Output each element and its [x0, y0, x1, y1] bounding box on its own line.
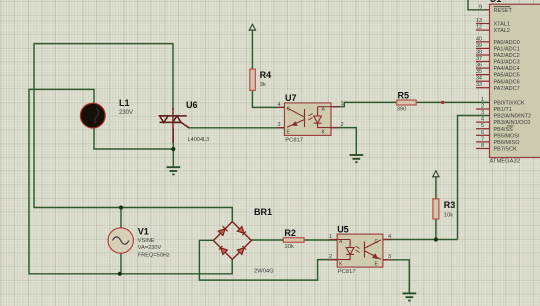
- resistor R4: [250, 69, 271, 90]
- svg-text:V1: V1: [138, 227, 149, 237]
- junction R5-MCU wire: [441, 101, 444, 104]
- pin stubs left: [476, 10, 490, 149]
- svg-text:7: 7: [481, 136, 484, 142]
- svg-text:390: 390: [397, 107, 407, 113]
- wire junction up to PB2: [458, 116, 490, 240]
- svg-text:R2: R2: [284, 228, 296, 238]
- svg-text:R3: R3: [444, 200, 456, 210]
- lamp L1: [80, 98, 133, 128]
- svg-text:2: 2: [341, 122, 344, 128]
- wire R5 to MCU pin1: [416, 101, 489, 103]
- svg-text:ATMEGA32: ATMEGA32: [490, 159, 521, 165]
- ground (U5): [403, 293, 417, 300]
- svg-text:U7: U7: [285, 93, 297, 103]
- resistor R2: [283, 228, 304, 250]
- MCU U1 ATMEGA32: [476, 0, 540, 165]
- ground (triac): [167, 167, 181, 174]
- svg-text:PB0/T0/XCK: PB0/T0/XCK: [494, 101, 526, 107]
- junction V1 top: [119, 205, 123, 209]
- svg-text:C: C: [375, 239, 379, 245]
- diode bottom-left: [219, 246, 228, 255]
- svg-text:12: 12: [476, 25, 482, 31]
- svg-text:PB1/T1: PB1/T1: [494, 107, 512, 113]
- optocoupler U7: [277, 93, 344, 144]
- svg-text:U1: U1: [490, 0, 502, 4]
- ground (U7): [350, 155, 364, 162]
- svg-text:39: 39: [476, 43, 482, 49]
- svg-text:3k: 3k: [260, 82, 266, 88]
- wire U5 pin4 row to R3 junction and right: [383, 239, 458, 241]
- svg-text:XTAL1: XTAL1: [494, 22, 510, 28]
- wire R3 top power: [435, 177, 437, 199]
- svg-text:1: 1: [341, 101, 344, 107]
- svg-text:PA0/ADC0: PA0/ADC0: [494, 40, 520, 46]
- svg-text:PA3/ADC3: PA3/ADC3: [494, 60, 520, 66]
- pin stubs: [277, 107, 340, 128]
- wire RESET from top: [468, 0, 490, 10]
- junction V1 bottom: [118, 272, 122, 276]
- svg-text:BR1: BR1: [254, 207, 272, 217]
- power arrow (R3): [433, 171, 439, 177]
- svg-text:PC817: PC817: [338, 269, 356, 275]
- led left: [337, 240, 359, 260]
- wire V1 bottom stub: [120, 253, 122, 274]
- svg-text:C: C: [287, 107, 291, 113]
- bridge BR1: [213, 207, 274, 275]
- svg-text:4: 4: [481, 117, 484, 123]
- wire lamp loop: [29, 89, 232, 273]
- svg-text:RESET: RESET: [494, 8, 513, 14]
- resistor R3: [433, 199, 455, 219]
- svg-text:33: 33: [476, 82, 482, 88]
- svg-text:35: 35: [476, 69, 482, 75]
- svg-text:R5: R5: [398, 91, 410, 101]
- wire R2 to U5 pin1: [304, 239, 337, 241]
- svg-text:38: 38: [476, 50, 482, 56]
- svg-text:PA6/ADC6: PA6/ADC6: [494, 79, 520, 85]
- svg-text:3: 3: [388, 254, 391, 260]
- svg-text:10k: 10k: [444, 213, 453, 219]
- diode top-left: [218, 226, 227, 235]
- svg-text:40: 40: [476, 36, 482, 42]
- svg-text:PB5/MOSI: PB5/MOSI: [494, 133, 520, 139]
- source V1: [108, 227, 170, 259]
- svg-text:PA5/ADC5: PA5/ADC5: [494, 73, 520, 79]
- svg-text:4: 4: [388, 234, 391, 240]
- SS overline: [507, 125, 514, 127]
- svg-text:PB7/SCK: PB7/SCK: [494, 147, 518, 153]
- triac U6: [160, 100, 210, 143]
- diode bottom-right: [237, 246, 246, 255]
- svg-text:37: 37: [476, 56, 482, 62]
- wire V1 top stub: [120, 208, 122, 229]
- svg-text:10k: 10k: [284, 244, 293, 250]
- svg-text:VA=230V: VA=230V: [138, 245, 162, 251]
- wire triac to ground: [172, 128, 174, 166]
- svg-text:3: 3: [481, 110, 484, 116]
- svg-text:L4004L3: L4004L3: [188, 137, 210, 143]
- svg-text:2W04G: 2W04G: [254, 269, 274, 275]
- svg-text:34: 34: [476, 76, 482, 82]
- power arrow (R4): [249, 24, 255, 30]
- svg-text:PB4/SS: PB4/SS: [494, 127, 514, 133]
- svg-text:4: 4: [277, 102, 280, 108]
- wire U5 pin3 to ground: [383, 260, 409, 293]
- junction lamp/triac node: [171, 147, 175, 151]
- svg-text:PB3/AIN1/OC0: PB3/AIN1/OC0: [494, 120, 531, 126]
- wire bridge right to R2: [251, 239, 283, 241]
- wire U7 pin2 to ground: [331, 128, 356, 155]
- svg-text:R4: R4: [260, 70, 272, 80]
- svg-text:9: 9: [479, 4, 482, 10]
- svg-text:XTAL2: XTAL2: [494, 28, 510, 34]
- svg-text:2: 2: [481, 104, 484, 110]
- svg-text:1: 1: [481, 97, 484, 103]
- svg-text:2: 2: [329, 254, 332, 260]
- svg-text:1: 1: [329, 234, 332, 240]
- wire R4 top power: [251, 30, 253, 69]
- wire top loop: [34, 44, 232, 222]
- transistor right: [364, 240, 381, 260]
- RESET overline: [494, 6, 511, 8]
- svg-text:8: 8: [481, 143, 484, 149]
- svg-text:PB2/AIN0/INT2: PB2/AIN0/INT2: [494, 114, 532, 120]
- svg-text:U6: U6: [186, 100, 198, 110]
- pin names: [494, 8, 532, 153]
- resistor R5: [397, 91, 417, 113]
- led right: [309, 107, 332, 128]
- svg-text:PA7/ADC7: PA7/ADC7: [494, 86, 520, 92]
- svg-text:6: 6: [481, 130, 484, 136]
- svg-text:U5: U5: [337, 224, 349, 234]
- svg-text:L1: L1: [119, 98, 130, 108]
- pin numbers: [476, 4, 484, 149]
- svg-text:PA4/ADC4: PA4/ADC4: [494, 66, 520, 72]
- svg-text:PC817: PC817: [285, 138, 303, 144]
- wire lamp bottom: [94, 128, 173, 150]
- wire bridge left to U5 pin2: [199, 240, 337, 280]
- wire R3 vertical: [435, 219, 437, 240]
- svg-text:3: 3: [277, 122, 280, 128]
- svg-text:PB6/MISO: PB6/MISO: [494, 140, 521, 146]
- svg-text:36: 36: [476, 63, 482, 69]
- wire U7 pin1 to R5: [331, 102, 397, 106]
- transistor left: [287, 108, 305, 127]
- svg-text:230V: 230V: [119, 110, 133, 116]
- svg-text:PA1/ADC1: PA1/ADC1: [494, 47, 520, 53]
- wire R4 to U7 pin4: [252, 90, 284, 107]
- diode top-right: [237, 227, 246, 236]
- wire gate to U7 pin3: [188, 127, 284, 129]
- svg-text:PA2/ADC2: PA2/ADC2: [494, 53, 520, 59]
- optocoupler U5: [329, 224, 391, 275]
- svg-text:5: 5: [481, 123, 484, 129]
- svg-text:13: 13: [476, 18, 482, 24]
- junction R3 node: [434, 237, 438, 241]
- svg-text:VSINE: VSINE: [138, 238, 155, 244]
- svg-text:FREQ=50Hz: FREQ=50Hz: [138, 252, 170, 258]
